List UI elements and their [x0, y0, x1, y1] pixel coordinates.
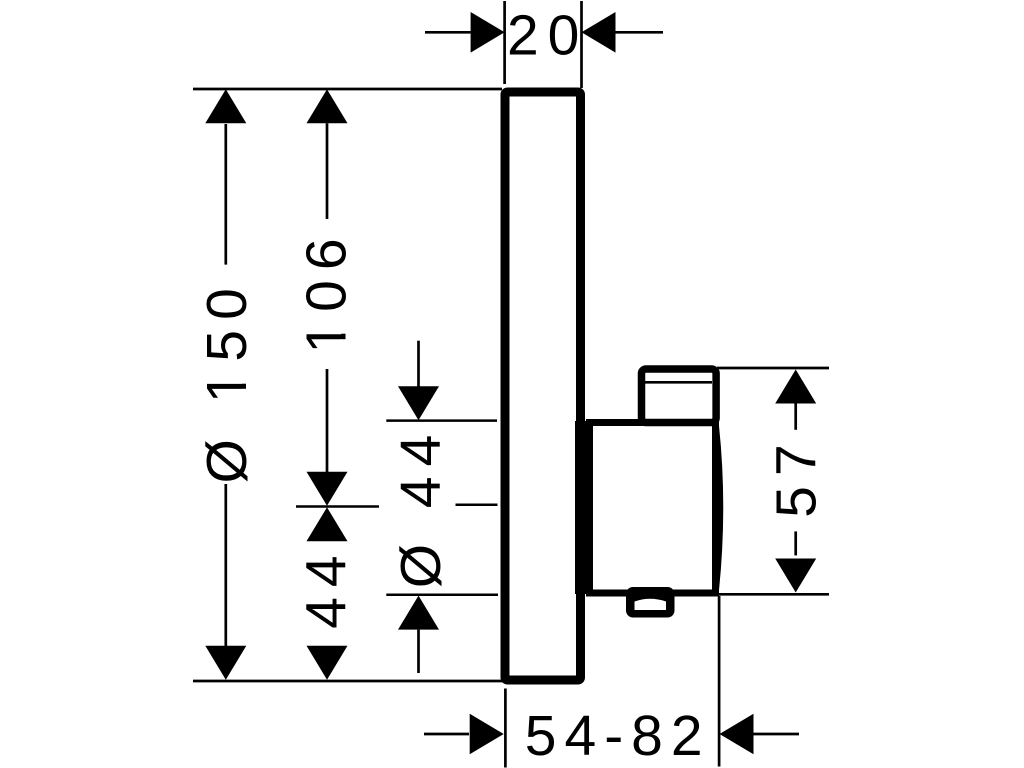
svg-text:Ø 150: Ø 150 — [195, 278, 259, 483]
svg-text:Ø 44: Ø 44 — [389, 425, 453, 589]
svg-text:20: 20 — [507, 4, 588, 68]
svg-text:57: 57 — [765, 434, 829, 517]
svg-text:54-82: 54-82 — [525, 704, 711, 768]
svg-text:44: 44 — [294, 545, 358, 628]
svg-text:106: 106 — [294, 228, 358, 353]
